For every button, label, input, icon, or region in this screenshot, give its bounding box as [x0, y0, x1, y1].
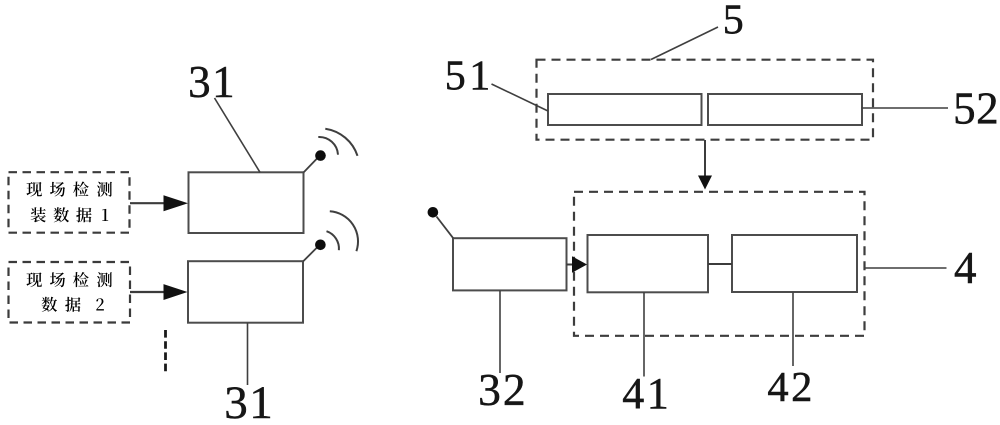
wireless transmit module 31 (lower solid box) — [188, 261, 303, 323]
connector line 41-42 — [708, 263, 732, 265]
vertical ellipsis between input boxes — [164, 330, 167, 373]
text 现场检测 (line 1, box 1) — [26, 181, 112, 196]
arrow from module 32 into box 41 — [567, 264, 575, 266]
text 装数据1 (line 2, box 1) — [31, 207, 109, 222]
arrow from unit 5 down to unit 4 — [704, 140, 706, 177]
wireless receive module 32 — [453, 238, 567, 290]
antenna of upper module 31 — [304, 158, 318, 173]
text 现场检测 (line 1, box 2) — [26, 272, 112, 287]
label 41 with leader — [643, 292, 645, 376]
inner box 52 — [708, 94, 862, 125]
label 31 (bottom) with leader — [247, 323, 249, 385]
svg-text:5: 5 — [723, 0, 744, 44]
dashed box 4 — [574, 192, 865, 336]
svg-text:41: 41 — [622, 369, 671, 418]
label 4 with leader — [865, 267, 947, 269]
svg-text:42: 42 — [767, 364, 815, 411]
label 52 with leader — [862, 107, 949, 109]
label 31 (top) with leader — [215, 98, 261, 172]
dashed box 5 — [537, 60, 874, 140]
inner box 51 — [548, 94, 702, 125]
label 32 with leader — [499, 291, 501, 374]
svg-text:51: 51 — [445, 53, 494, 99]
inner box 42 — [732, 235, 857, 292]
antenna of lower module 31 — [303, 248, 317, 262]
antenna of module 32 — [437, 217, 454, 239]
inner box 41 — [588, 235, 709, 292]
wireless transmit module 31 (upper solid box) — [189, 172, 304, 233]
text 数据2 (line 2, box 2) — [42, 297, 104, 312]
svg-text:31: 31 — [188, 57, 236, 107]
label 5 with leader — [651, 27, 718, 60]
arrow from data2 box to lower module 31 — [130, 291, 166, 293]
label 42 with leader — [792, 292, 794, 366]
dashed input box: 现场检测装数据1 — [9, 172, 130, 233]
dashed input box: 现场检测数据2 — [9, 262, 131, 323]
svg-text:52: 52 — [953, 84, 999, 134]
svg-text:32: 32 — [478, 364, 527, 415]
svg-text:4: 4 — [954, 243, 977, 293]
svg-text:31: 31 — [224, 377, 274, 420]
arrow from data1 box to module 31 — [130, 202, 166, 204]
label 51 with leader — [492, 84, 549, 111]
